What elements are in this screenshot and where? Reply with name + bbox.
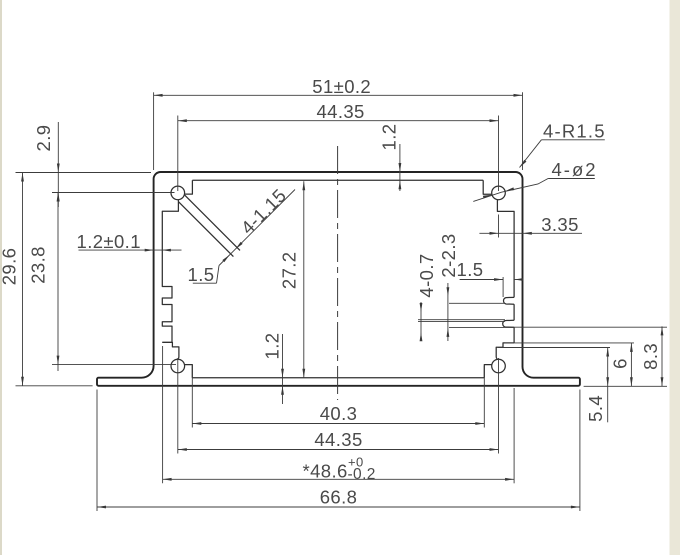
svg-text:1.5: 1.5 xyxy=(188,264,215,285)
svg-text:4-ø2: 4-ø2 xyxy=(552,159,598,180)
dim 1.2±0.1 underline xyxy=(79,249,182,251)
extension lines from right wall beads xyxy=(449,302,505,304)
arrows dim 44.35 top xyxy=(178,119,187,122)
bottom-right boss notch xyxy=(484,365,492,378)
cavity floor (web top surface) xyxy=(192,377,484,379)
dim 51 extension left xyxy=(153,92,155,170)
right wall slot bead upper xyxy=(504,297,515,304)
arrows dim 6 xyxy=(630,343,633,352)
dim 27.2 line xyxy=(303,181,305,377)
arrows dim 44.35 bottom xyxy=(178,448,187,451)
arrows dim 1.2±0.1 outside xyxy=(145,249,154,252)
svg-text:5.4: 5.4 xyxy=(585,395,606,422)
svg-text:51±0.2: 51±0.2 xyxy=(312,76,371,97)
dim 51 extension right xyxy=(522,92,524,170)
dim 44.35 top extension left xyxy=(177,116,179,192)
screw boss hole bottom-left xyxy=(171,359,185,373)
dim 4-1.15 diagonal line xyxy=(219,190,295,266)
extension 23.8 bottom at boss center y=364.4 xyxy=(52,364,176,366)
dim 48.6 extension right xyxy=(513,388,515,483)
arrows dim 48.6 xyxy=(163,478,172,481)
dim 3.35 extension xyxy=(498,215,500,238)
arrows dim 51 xyxy=(154,94,163,97)
leader 4-ø2 underline xyxy=(548,178,595,180)
dim 5.4 extension xyxy=(498,347,610,349)
svg-text:4-R1.5: 4-R1.5 xyxy=(543,121,606,142)
screw boss hole bottom-right xyxy=(492,359,506,373)
bottom-left boss notch xyxy=(184,365,192,378)
dim 40.3 extension right xyxy=(483,366,485,428)
svg-text:3.35: 3.35 xyxy=(541,214,579,235)
dim 6 line xyxy=(630,343,632,386)
right wall inner face upper xyxy=(497,200,514,298)
arrow leader 4-ø2 xyxy=(505,187,514,192)
svg-text:40.3: 40.3 xyxy=(320,403,358,424)
dim 1.5 right line xyxy=(460,279,504,281)
dim 1.2 top wall line xyxy=(399,144,401,191)
profile outer boundary xyxy=(97,172,580,386)
svg-text:27.2: 27.2 xyxy=(279,251,300,289)
svg-text:4-0.7: 4-0.7 xyxy=(416,253,437,297)
arrows dim 4-0.7 xyxy=(420,303,423,312)
svg-text:1.5: 1.5 xyxy=(457,259,484,280)
arrow leader 4-R1.5 xyxy=(518,160,526,169)
svg-text:1.2: 1.2 xyxy=(378,124,399,151)
svg-text:44.35: 44.35 xyxy=(316,101,364,122)
svg-text:-0.2: -0.2 xyxy=(348,466,376,483)
svg-text:44.35: 44.35 xyxy=(314,429,362,450)
dim 48.6 line xyxy=(163,478,514,480)
arrows dim 1.5 right outside xyxy=(494,278,503,281)
svg-text:6: 6 xyxy=(609,358,630,369)
dim 44.35 bottom extension left xyxy=(177,358,179,454)
right wall inner face lower xyxy=(513,327,515,343)
dim 40.3 line xyxy=(192,423,484,425)
dim 2.9 / 23.8 shared line xyxy=(57,122,59,207)
dim 44.35 bottom extension right xyxy=(498,358,500,454)
dim 1.5 right extension xyxy=(502,277,504,297)
arrows dim 5.4 xyxy=(606,348,609,357)
dim 1.2 bottom web line xyxy=(282,334,284,404)
dim 8.3 extension xyxy=(514,326,667,328)
top-right boss notch xyxy=(483,180,492,194)
centerline xyxy=(337,146,339,400)
right wall slot bead lower xyxy=(503,320,514,327)
right wall inner face between beads xyxy=(513,304,515,320)
arrows dim 23.8 inside xyxy=(57,193,60,202)
arrows dim 1.2 top outside xyxy=(399,163,402,172)
diagonal slot lower line xyxy=(179,202,234,257)
svg-text:1.2±0.1: 1.2±0.1 xyxy=(77,231,141,252)
top wall inner surface xyxy=(192,179,483,181)
svg-text:66.8: 66.8 xyxy=(320,487,358,508)
dim 66.8 extension right xyxy=(579,390,581,512)
dim 40.3 extension left xyxy=(191,366,193,428)
arrows dim 2.9 outside xyxy=(57,164,60,173)
beige border strip right xyxy=(670,0,680,555)
arrows dim 27.2 xyxy=(302,181,305,190)
arrows dim 1.2 bottom outside xyxy=(281,369,284,378)
leader 4-ø2 diagonal xyxy=(473,179,548,202)
svg-text:2.9: 2.9 xyxy=(33,125,54,152)
dim 44.35 bottom line xyxy=(178,449,499,451)
dim 5.4 line xyxy=(607,348,609,423)
left wall inner face with card slots xyxy=(162,200,178,343)
dim 2-2.3 line xyxy=(447,283,449,341)
dim 66.8 line xyxy=(97,506,580,508)
extension 29.6 top xyxy=(16,172,152,174)
dim 51 line xyxy=(154,94,523,96)
dim 4-0.7 line xyxy=(420,302,422,341)
svg-text:29.6: 29.6 xyxy=(0,248,19,286)
dim 3.35 line xyxy=(479,232,582,234)
dim 44.35 top line xyxy=(178,120,499,122)
bottom-left boss staircase xyxy=(162,342,179,359)
svg-text:8.3: 8.3 xyxy=(640,343,661,370)
svg-text:1.2: 1.2 xyxy=(261,333,282,360)
svg-text:23.8: 23.8 xyxy=(28,246,49,284)
arrows dim 66.8 xyxy=(97,506,106,509)
dim 4-1.15 tail to 1.5 label xyxy=(217,266,220,284)
arrows dim 29.6 xyxy=(21,173,24,182)
leader 4-R1.5 underline xyxy=(541,139,604,141)
arrows dim 4-1.15 xyxy=(234,242,242,250)
arrows dim 8.3 xyxy=(661,326,664,335)
screw boss hole top-right xyxy=(492,186,506,200)
dim 1.5 left underline xyxy=(193,282,217,284)
dim 44.35 top extension right xyxy=(498,116,500,192)
dim 8.3 line xyxy=(661,326,663,386)
beige border strip left xyxy=(0,0,2,555)
bottom-right boss staircase xyxy=(496,343,514,360)
extension at boss center y=192.5 xyxy=(52,192,175,194)
dim 48.6 extension left xyxy=(162,346,164,483)
dim 66.8 extension left xyxy=(96,390,98,512)
dim 6 extension xyxy=(505,342,634,344)
arrows dim 40.3 xyxy=(192,422,201,425)
diagonal slot upper line xyxy=(185,195,240,250)
extension 29.6 bottom xyxy=(16,385,93,387)
dim 29.6 line xyxy=(22,173,24,386)
leader 4-R1.5 diagonal xyxy=(520,140,542,168)
screw boss hole top-left xyxy=(171,186,185,200)
arrows dim 3.35 outside xyxy=(490,232,499,235)
arrows dim 2-2.3 xyxy=(447,287,450,296)
svg-text:*48.6: *48.6 xyxy=(303,461,348,482)
top-left boss notch xyxy=(185,180,193,194)
flange bottom right extension xyxy=(584,385,667,387)
